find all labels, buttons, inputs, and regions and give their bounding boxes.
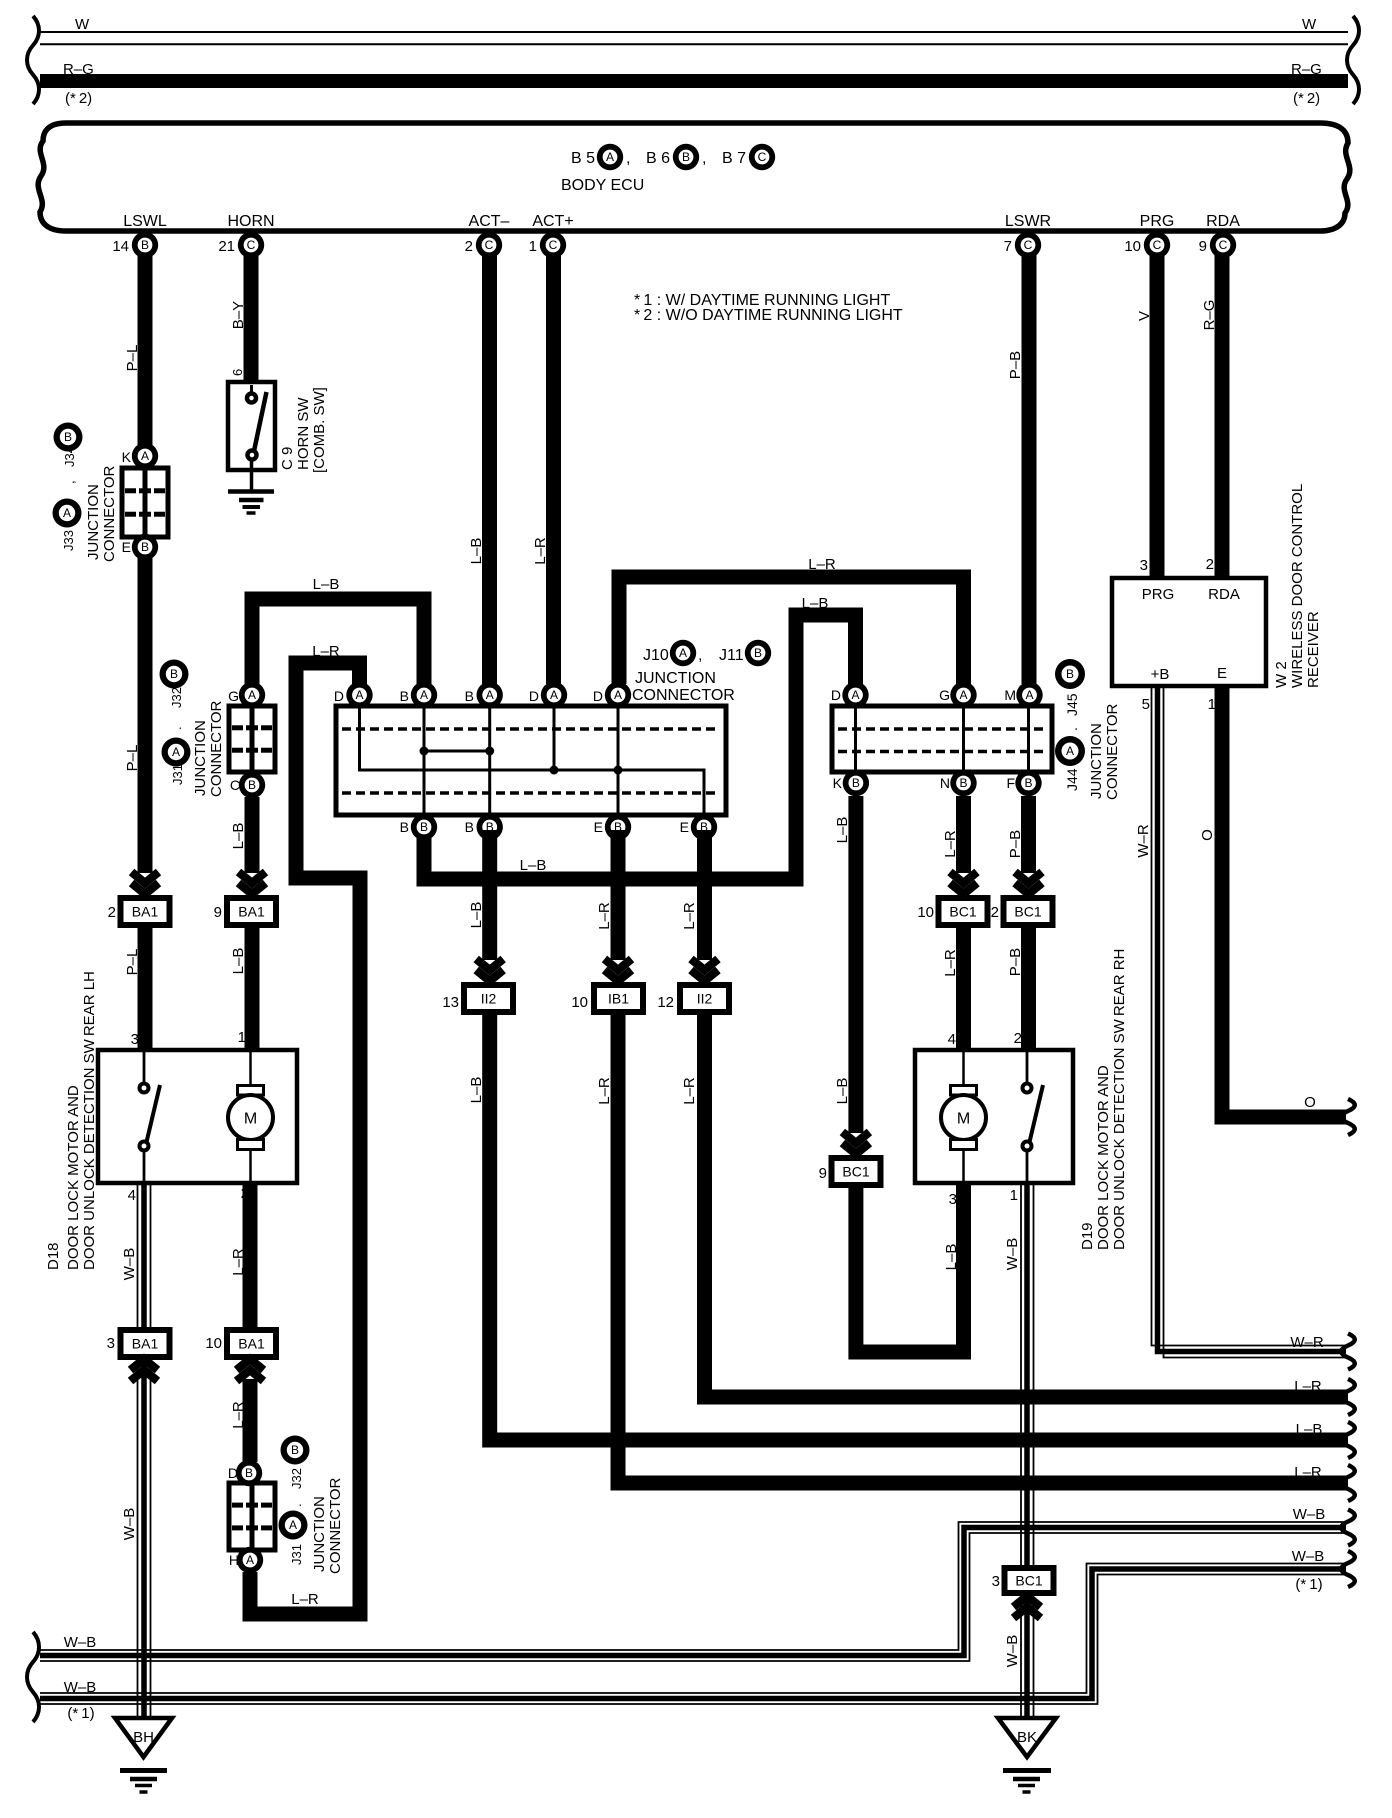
junction dot	[485, 747, 494, 756]
svg-text:L–R: L–R	[681, 1077, 698, 1105]
svg-text:DOOR UNLOCK DETECTION SW REAR: DOOR UNLOCK DETECTION SW REAR RH	[1111, 949, 1128, 1250]
svg-text:W: W	[75, 16, 90, 33]
svg-text:LSWR: LSWR	[1005, 213, 1051, 230]
svg-text:L–B: L–B	[230, 948, 247, 975]
svg-text:B: B	[291, 1443, 299, 1457]
svg-text:C: C	[230, 777, 240, 793]
svg-text:DOOR LOCK MOTOR AND: DOOR LOCK MOTOR AND	[65, 1085, 82, 1270]
svg-text:BODY ECU: BODY ECU	[561, 177, 644, 194]
junction connector J31/J32 box	[229, 706, 275, 772]
wire R-G (ECU 9 RDA to receiver)	[1215, 250, 1230, 578]
right break brace (W-R)	[1341, 1334, 1355, 1370]
svg-text:W: W	[1302, 16, 1317, 33]
svg-text:L–R: L–R	[942, 830, 959, 858]
wire P-B (J44 pin F down to 2 BC1 and D19 pin 2)	[1021, 796, 1036, 873]
right break brace (O)	[1341, 1099, 1355, 1135]
svg-text:P–B: P–B	[1007, 351, 1024, 379]
svg-text:B: B	[245, 1466, 253, 1480]
svg-text:K: K	[833, 775, 843, 791]
svg-text:L–B: L–B	[520, 857, 547, 874]
svg-text:E: E	[680, 819, 689, 835]
svg-text:A: A	[141, 449, 149, 463]
wire L-B (ECU 2 ACT- down to junction connector)	[482, 250, 497, 684]
svg-text:B: B	[141, 540, 149, 554]
svg-text:2: 2	[465, 238, 473, 255]
arrow out of connector 10 BA1	[237, 1370, 264, 1381]
right break brace (W-B *1)	[1341, 1551, 1355, 1587]
svg-text:R–G: R–G	[1291, 61, 1322, 78]
svg-text:JUNCTION: JUNCTION	[1088, 723, 1105, 799]
ground BH	[115, 1718, 172, 1757]
svg-text:JUNCTION: JUNCTION	[192, 720, 209, 796]
svg-text:6: 6	[230, 369, 245, 376]
svg-text:WIRELESS DOOR CONTROL: WIRELESS DOOR CONTROL	[1289, 484, 1306, 688]
svg-text:W–R: W–R	[1135, 824, 1152, 858]
svg-text:B: B	[465, 819, 474, 835]
ground (horn switch)	[250, 459, 254, 490]
svg-text:A: A	[172, 745, 180, 759]
svg-text:A: A	[63, 506, 71, 520]
svg-text:,: ,	[698, 647, 702, 664]
svg-text:W 2: W 2	[1273, 661, 1290, 688]
arrow out of connector 3 BA1	[131, 1370, 158, 1381]
wire P-B (ECU 7 LSWR down to J44 pin M)	[1022, 250, 1037, 684]
wire L-B (J44 pin K down to 9 BC1 and D19 pin 3)	[848, 796, 863, 1133]
svg-text:A: A	[420, 688, 428, 702]
svg-text:V: V	[1136, 311, 1153, 321]
svg-text:2: 2	[1206, 556, 1214, 573]
svg-text:W–B: W–B	[1293, 1506, 1326, 1523]
label J31 (A) . J32 (B)	[160, 660, 189, 689]
svg-text:J31: J31	[170, 764, 185, 785]
svg-text:A: A	[1025, 688, 1033, 702]
svg-text:,: ,	[626, 150, 630, 167]
svg-text:2: 2	[991, 904, 999, 921]
svg-text:W–B: W–B	[121, 1508, 138, 1541]
label J33 (A) , J34 (B)	[54, 423, 83, 452]
arrow into connector 2 BA1	[132, 872, 159, 883]
svg-text:W–B: W–B	[1004, 1238, 1021, 1271]
svg-text:O: O	[1199, 829, 1216, 841]
J10/J11 internal bus lines	[360, 706, 705, 815]
svg-text:A: A	[1066, 744, 1074, 758]
svg-text:DOOR UNLOCK DETECTION SW REAR: DOOR UNLOCK DETECTION SW REAR LH	[81, 971, 98, 1270]
svg-text:BA1: BA1	[238, 1336, 265, 1352]
D18 unlock detection switch	[143, 1050, 146, 1083]
arrow into connector 10 BC1	[950, 872, 977, 883]
wire R-G bus (top thick)	[40, 74, 1348, 88]
left break brace (W-B buses)	[27, 1632, 39, 1722]
ECU box (BODY ECU)	[38, 123, 1350, 231]
svg-text:A: A	[289, 1518, 297, 1532]
svg-text:B: B	[248, 778, 256, 792]
svg-text:B 7: B 7	[722, 150, 746, 167]
svg-text:L–B: L–B	[468, 1077, 485, 1104]
svg-text:P–L: P–L	[124, 345, 141, 372]
svg-text:B: B	[1024, 776, 1032, 790]
svg-text:(* 2): (* 2)	[65, 90, 92, 107]
svg-text:J32: J32	[289, 1468, 304, 1489]
wire B-Y (ECU 21 to horn switch)	[244, 250, 259, 384]
svg-text:BK: BK	[1017, 1729, 1037, 1746]
wire L-B (9 BA1 down to D18 pin 1)	[245, 925, 260, 1050]
svg-text:3: 3	[949, 1191, 957, 1208]
wire L-R (central JC pin E to connector IB1 and right)	[611, 830, 626, 960]
wire W-R (W2 +B shielded down and right)	[1158, 686, 1347, 1352]
svg-text:.: .	[169, 726, 184, 730]
svg-text:9: 9	[214, 904, 222, 921]
svg-text:W–B: W–B	[64, 1634, 97, 1651]
junction dot	[420, 747, 429, 756]
junction connector J33/J34 box	[122, 468, 168, 537]
svg-text:A: A	[959, 688, 967, 702]
svg-text:CONNECTOR: CONNECTOR	[101, 465, 118, 562]
wireless door control receiver W2 box	[1112, 578, 1266, 686]
svg-text:BA1: BA1	[238, 904, 265, 920]
svg-text:P–B: P–B	[1007, 830, 1024, 858]
right break brace (W-B)	[1341, 1510, 1355, 1546]
svg-text:A: A	[246, 1553, 254, 1567]
left break brace (top buses)	[27, 16, 39, 104]
svg-text:9: 9	[819, 1165, 827, 1182]
svg-text:A: A	[614, 688, 622, 702]
svg-text:W–B: W–B	[121, 1248, 138, 1281]
svg-text:C: C	[758, 150, 767, 164]
svg-text:CONNECTOR: CONNECTOR	[632, 687, 735, 704]
svg-text:II2: II2	[697, 991, 713, 1007]
arrow into connector 9 BC1	[842, 1132, 869, 1143]
svg-text:[COMB. SW]: [COMB. SW]	[311, 387, 328, 473]
svg-text:G: G	[228, 688, 239, 704]
svg-text:O: O	[1304, 1094, 1316, 1111]
svg-text:A: A	[679, 646, 687, 660]
arrow into connector 12 II2	[691, 959, 718, 970]
svg-text:RDA: RDA	[1206, 213, 1240, 230]
svg-text:13: 13	[442, 994, 459, 1011]
svg-text:W–B: W–B	[1292, 1548, 1325, 1565]
svg-text:5: 5	[1142, 696, 1150, 713]
svg-text:II2: II2	[481, 991, 497, 1007]
svg-text:3: 3	[1140, 557, 1148, 574]
svg-text:21: 21	[218, 238, 235, 255]
arrow into connector 13 II2	[476, 959, 503, 970]
horn switch C9 box	[228, 382, 275, 470]
svg-text:* 2 : W/O DAYTIME RUNNING LIGH: * 2 : W/O DAYTIME RUNNING LIGHT	[634, 307, 903, 324]
svg-text:A: A	[355, 688, 363, 702]
ground BK	[998, 1718, 1056, 1757]
wire W-B bus (to ground BH, lower left)	[40, 1528, 1346, 1656]
J44 dashed rows	[838, 727, 1046, 731]
svg-text:1: 1	[1010, 1187, 1018, 1204]
svg-text:E: E	[122, 539, 131, 555]
svg-text:10: 10	[917, 904, 934, 921]
svg-text:RDA: RDA	[1208, 586, 1240, 603]
right break brace (L-R)	[1341, 1379, 1355, 1415]
svg-text:L–R: L–R	[312, 643, 340, 660]
svg-text:P–L: P–L	[124, 745, 141, 772]
svg-text:L–R: L–R	[1294, 1378, 1322, 1395]
svg-text:D18: D18	[45, 1242, 62, 1270]
wire P-L (ECU 14 to J33 pin K)	[138, 250, 153, 446]
svg-text:L–B: L–B	[802, 595, 829, 612]
svg-text:B: B	[754, 646, 762, 660]
svg-text:J33: J33	[61, 530, 76, 551]
junction connector J44/J45 box	[832, 706, 1052, 772]
svg-text:B: B	[682, 150, 690, 164]
svg-text:(* 1): (* 1)	[67, 1705, 94, 1722]
svg-text:L–R: L–R	[291, 1591, 319, 1608]
svg-text:,: ,	[62, 480, 77, 484]
svg-text:A: A	[550, 688, 558, 702]
svg-text:2: 2	[108, 904, 116, 921]
svg-text:K: K	[122, 449, 132, 465]
svg-text:L–R: L–R	[942, 949, 959, 977]
svg-text:M: M	[1004, 687, 1016, 703]
svg-text:L–B: L–B	[468, 538, 485, 565]
svg-text:9: 9	[1199, 238, 1207, 255]
svg-text:L–R: L–R	[808, 556, 836, 573]
svg-text:LSWL: LSWL	[123, 213, 167, 230]
svg-text:HORN: HORN	[227, 213, 274, 230]
svg-text:4: 4	[948, 1031, 956, 1048]
svg-text:BC1: BC1	[1015, 1573, 1042, 1589]
right break brace (L-R)	[1341, 1465, 1355, 1501]
svg-text:CONNECTOR: CONNECTOR	[1104, 703, 1121, 800]
svg-text:3: 3	[107, 1335, 115, 1352]
svg-text:N: N	[940, 775, 950, 791]
svg-text:BA1: BA1	[132, 1336, 159, 1352]
svg-text:B: B	[400, 688, 409, 704]
svg-text:D: D	[529, 688, 539, 704]
svg-text:D: D	[831, 687, 841, 703]
svg-text:10: 10	[1124, 238, 1141, 255]
wire L-R (central JC pin E to connector II2 and right)	[697, 830, 712, 960]
svg-text:J44: J44	[1064, 768, 1080, 791]
svg-text:J10: J10	[643, 647, 669, 664]
svg-text:J34: J34	[62, 446, 77, 467]
svg-text:L–R: L–R	[1294, 1464, 1322, 1481]
svg-text:L–B: L–B	[1296, 1421, 1323, 1438]
svg-text:D19: D19	[1079, 1222, 1096, 1250]
J10/J11 dashed rows	[342, 727, 720, 731]
svg-text:IB1: IB1	[608, 991, 629, 1007]
arrow into connector 2 BC1	[1015, 872, 1042, 883]
svg-text:G: G	[939, 687, 950, 703]
wire W-B shielded (D18 pin 4 down to ground BH)	[141, 1183, 147, 1718]
svg-text:C: C	[1024, 238, 1033, 252]
svg-text:CONNECTOR: CONNECTOR	[327, 1477, 344, 1574]
label J31 (A) . J32 (B) (second)	[281, 1436, 310, 1465]
svg-text:B: B	[170, 667, 178, 681]
junction dot	[550, 766, 559, 775]
svg-text:1: 1	[238, 1029, 246, 1046]
svg-text:B: B	[959, 776, 967, 790]
wire W-B shielded (D19 pin 1 down to ground BK)	[1024, 1183, 1030, 1718]
wire W bus (hollow white-wire pair, top)	[40, 31, 1348, 33]
svg-text:B: B	[465, 688, 474, 704]
svg-text:PRG: PRG	[1140, 213, 1175, 230]
wire L-R (J44 pin N down to 10 BC1 and D19 pin 4)	[956, 796, 971, 873]
svg-text:DOOR LOCK MOTOR AND: DOOR LOCK MOTOR AND	[1095, 1065, 1112, 1250]
svg-text:E: E	[1217, 665, 1227, 682]
svg-text:BH: BH	[133, 1729, 154, 1746]
svg-text:A: A	[851, 688, 859, 702]
svg-text:B: B	[1066, 667, 1074, 681]
wire L-R (central JC pin D up, right to J44 pin G)	[619, 577, 964, 684]
wire L-R (central JC pin D to J31-2 pin H, long loop)	[250, 663, 360, 1614]
svg-text:B: B	[400, 819, 409, 835]
svg-text:B: B	[141, 238, 149, 252]
door lock motor D18 box	[98, 1050, 297, 1183]
wire L-B (central JC pin B down, right to J44 pin D)	[424, 615, 856, 879]
svg-text:B 5: B 5	[571, 150, 595, 167]
svg-text:W–B: W–B	[64, 1679, 97, 1696]
wire L-R (D18 pin 2 down to 10 BA1 and J31-2 pin D)	[243, 1183, 258, 1330]
junction connector J31/J32 second box	[229, 1483, 275, 1550]
svg-text:L–B: L–B	[313, 576, 340, 593]
svg-text:2: 2	[1014, 1030, 1022, 1047]
svg-text:3: 3	[131, 1031, 139, 1048]
horn switch contacts	[250, 385, 253, 394]
door lock motor D19 box	[915, 1050, 1073, 1183]
wire L-R (ECU 1 ACT+ down to junction connector)	[546, 250, 561, 684]
svg-text:14: 14	[112, 238, 129, 255]
svg-text:L–B: L–B	[834, 817, 851, 844]
wire L-B (central JC pin B to connector II2 and right)	[482, 830, 497, 960]
arrow into connector 9 BA1	[239, 872, 266, 883]
svg-text:+B: +B	[1151, 666, 1170, 683]
svg-text:D: D	[334, 688, 344, 704]
svg-text:R–G: R–G	[1201, 300, 1218, 331]
D18 motor M	[249, 1050, 252, 1085]
wire P-L (J33 pin E down to connector BA1)	[138, 557, 153, 873]
svg-text:B: B	[852, 776, 860, 790]
svg-text:M: M	[244, 1111, 257, 1128]
wire L-B (J31 pin G loop to central JC pin B)	[252, 599, 424, 684]
svg-text:HORN SW: HORN SW	[295, 397, 312, 470]
svg-text:,: ,	[702, 150, 706, 167]
arrow into connector 10 IB1	[605, 959, 632, 970]
svg-text:4: 4	[128, 1187, 136, 1204]
svg-text:BC1: BC1	[842, 1164, 869, 1180]
svg-text:10: 10	[571, 994, 588, 1011]
svg-text:C: C	[247, 238, 256, 252]
svg-text:L–B: L–B	[943, 1244, 960, 1271]
svg-text:7: 7	[1004, 238, 1012, 255]
svg-text:RECEIVER: RECEIVER	[1305, 611, 1322, 688]
label J44 (A) . J45 (B)	[1055, 659, 1085, 689]
svg-text:J32: J32	[169, 687, 184, 708]
svg-text:PRG: PRG	[1142, 586, 1175, 603]
right break brace (top buses)	[1347, 16, 1359, 104]
svg-text:12: 12	[657, 994, 674, 1011]
svg-text:L–R: L–R	[230, 1248, 247, 1276]
svg-text:(* 2): (* 2)	[1293, 90, 1320, 107]
svg-text:L–B: L–B	[230, 823, 247, 850]
svg-text:1: 1	[529, 238, 537, 255]
svg-text:A: A	[248, 688, 256, 702]
svg-text:.: .	[289, 1503, 304, 1507]
svg-text:C: C	[1153, 238, 1162, 252]
svg-text:CONNECTOR: CONNECTOR	[208, 700, 225, 797]
svg-text:(* 1): (* 1)	[1295, 1576, 1322, 1593]
svg-text:P–L: P–L	[124, 949, 141, 976]
svg-text:ACT+: ACT+	[532, 213, 573, 230]
svg-text:L–R: L–R	[596, 902, 613, 930]
svg-text:D: D	[593, 688, 603, 704]
svg-text:C: C	[1219, 238, 1228, 252]
svg-text:A: A	[486, 688, 494, 702]
wire P-L (2 BA1 down to D18 pin 3)	[138, 925, 153, 1050]
svg-text:M: M	[957, 1111, 970, 1128]
svg-text:B 6: B 6	[646, 150, 670, 167]
J44 internal pin lines	[854, 706, 857, 772]
D19 motor M	[962, 1050, 965, 1085]
right break brace (L-B)	[1341, 1422, 1355, 1458]
svg-text:B–Y: B–Y	[230, 301, 247, 329]
svg-text:P–B: P–B	[1007, 948, 1024, 976]
svg-text:JUNCTION: JUNCTION	[311, 1496, 328, 1572]
svg-text:B: B	[64, 430, 72, 444]
svg-text:3: 3	[992, 1573, 1000, 1590]
wire W-B bus *1 (lower)	[40, 1569, 1346, 1699]
svg-text:C: C	[485, 238, 494, 252]
D19 unlock detection switch	[1026, 1050, 1029, 1083]
svg-text:A: A	[606, 150, 614, 164]
junction dot	[614, 766, 623, 775]
svg-text:BC1: BC1	[1014, 904, 1041, 920]
svg-text:F: F	[1006, 775, 1015, 791]
svg-text:L–R: L–R	[596, 1077, 613, 1105]
svg-text:JUNCTION: JUNCTION	[85, 484, 102, 560]
svg-text:E: E	[594, 819, 603, 835]
arrow out of connector 3 BC1	[1014, 1607, 1041, 1618]
svg-text:J31: J31	[289, 1544, 304, 1565]
svg-text:C 9: C 9	[279, 447, 296, 470]
svg-text:R–G: R–G	[63, 61, 94, 78]
svg-text:L–R: L–R	[532, 537, 549, 565]
svg-text:J45: J45	[1064, 693, 1080, 716]
svg-text:.: .	[1064, 727, 1080, 731]
svg-text:L–B: L–B	[834, 1078, 851, 1105]
svg-text:L–R: L–R	[230, 1401, 247, 1429]
svg-text:C: C	[549, 238, 558, 252]
wire L-B (J31 pin C down to connector BA1)	[245, 797, 260, 873]
svg-text:JUNCTION: JUNCTION	[635, 670, 716, 687]
wire V (ECU 10 PRG to receiver)	[1150, 250, 1165, 578]
svg-text:BC1: BC1	[949, 904, 976, 920]
svg-text:W–R: W–R	[1290, 1334, 1324, 1351]
svg-text:W–B: W–B	[1004, 1635, 1021, 1668]
svg-text:ACT–: ACT–	[469, 213, 510, 230]
svg-text:L–B: L–B	[468, 902, 485, 929]
svg-text:BA1: BA1	[132, 904, 159, 920]
svg-text:L–R: L–R	[681, 902, 698, 930]
svg-text:10: 10	[205, 1335, 222, 1352]
central junction connector J10/J11 box	[336, 706, 726, 815]
wire O (W2 E down and right)	[1222, 686, 1346, 1117]
svg-text:J11: J11	[719, 647, 744, 664]
svg-text:B: B	[420, 820, 428, 834]
